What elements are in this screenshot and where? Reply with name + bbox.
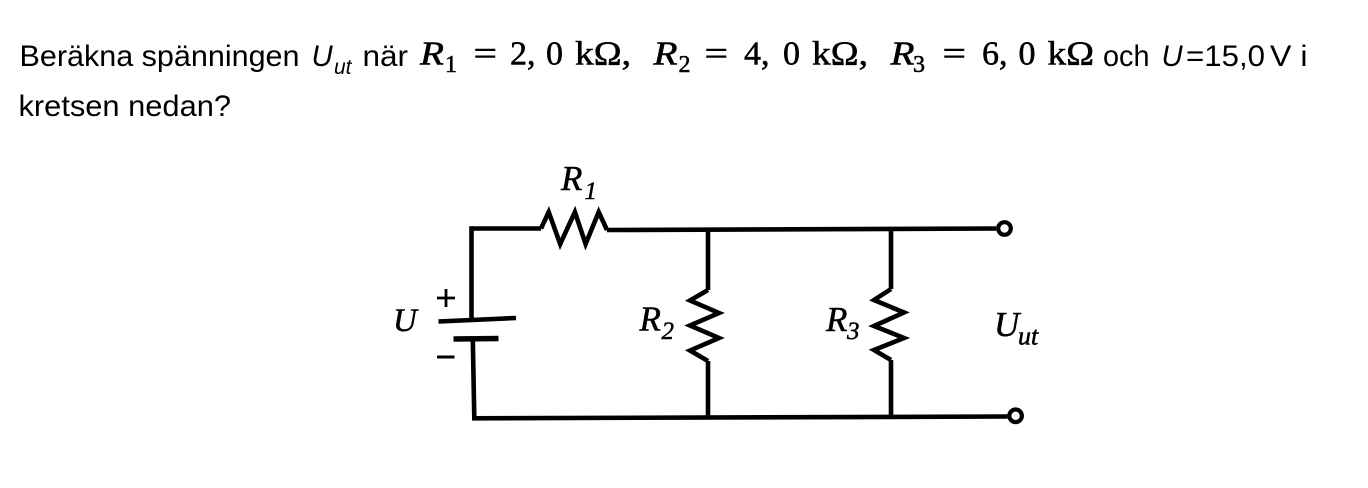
svg-text:ut: ut: [1018, 322, 1039, 351]
svg-text:0: 0: [1019, 36, 1036, 73]
svg-text:R: R: [652, 36, 677, 73]
svg-text:=: =: [943, 36, 967, 73]
wire: R3 bottom lead to bottom rail: [889, 360, 894, 418]
svg-text:när: när: [363, 40, 409, 73]
wire: from battery - plate down and to bottom rail: [473, 340, 475, 418]
svg-text:V i: V i: [1270, 40, 1308, 73]
svg-text:3: 3: [846, 318, 860, 345]
svg-text:Beräkna spänningen: Beräkna spänningen: [20, 40, 300, 73]
svg-text:0: 0: [546, 36, 563, 73]
output terminal top (open circle): [998, 222, 1011, 235]
svg-text:ut: ut: [334, 56, 353, 79]
svg-text:kΩ: kΩ: [1048, 36, 1095, 73]
svg-text:2: 2: [662, 318, 675, 345]
svg-text:kΩ,: kΩ,: [812, 36, 868, 73]
svg-text:U: U: [312, 40, 334, 73]
svg-text:R: R: [639, 300, 661, 339]
resistor R2 (vertical zigzag): [690, 290, 719, 361]
svg-text:U: U: [393, 303, 419, 339]
svg-text:=: =: [705, 36, 729, 73]
svg-text:R: R: [560, 159, 582, 198]
output terminal bottom (open circle): [1009, 410, 1022, 423]
svg-text:2: 2: [679, 52, 691, 78]
wire: top rail left segment into R1: [471, 226, 541, 231]
svg-text:2,: 2,: [510, 36, 536, 73]
svg-text:4,: 4,: [744, 36, 770, 73]
wire: R2 top lead from node A: [706, 229, 711, 291]
wire: R2 bottom lead to bottom rail: [706, 361, 711, 418]
svg-text:R: R: [419, 36, 444, 73]
battery U: positive long plate: [439, 318, 517, 322]
svg-text:kretsen nedan?: kretsen nedan?: [19, 90, 232, 123]
svg-text:R: R: [889, 36, 914, 73]
svg-text:1: 1: [445, 52, 457, 78]
wire: top-left vertical from top rail down to battery + plate: [469, 226, 474, 319]
svg-text:3: 3: [913, 52, 925, 78]
wire: bottom rail from battery to output terminal: [472, 417, 1007, 419]
wire: top rail from R1 to output terminal, through nodes A and B: [607, 229, 996, 231]
svg-text:6,: 6,: [982, 36, 1008, 73]
resistor R3 (vertical zigzag): [874, 289, 904, 360]
svg-text:R: R: [825, 300, 847, 339]
svg-text:0: 0: [783, 36, 800, 73]
svg-text:U: U: [1162, 40, 1184, 73]
wire: R3 top lead from node B: [889, 229, 894, 290]
svg-text:=: =: [474, 36, 498, 73]
resistor R1 (zigzag): [541, 212, 607, 244]
svg-text:1: 1: [585, 178, 598, 205]
battery minus sign: [437, 356, 455, 359]
battery U: negative short plate: [454, 336, 499, 342]
svg-text:kΩ,: kΩ,: [575, 36, 631, 73]
battery plus sign: [437, 289, 455, 307]
svg-text:och: och: [1103, 40, 1150, 73]
svg-text:=15,0: =15,0: [1186, 40, 1265, 73]
